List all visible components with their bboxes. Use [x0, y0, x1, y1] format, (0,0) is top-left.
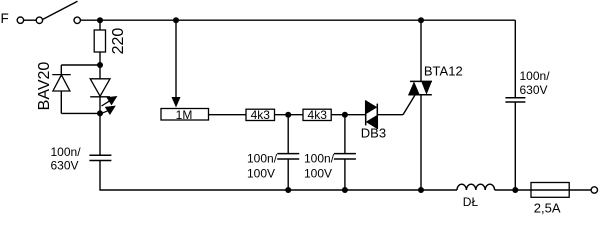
- node junction wiper: [173, 17, 179, 23]
- node junction top-left: [97, 17, 103, 23]
- node junction bottom (C3): [342, 187, 348, 193]
- svg-text:100V: 100V: [304, 167, 332, 181]
- diode BAV20: [36, 62, 71, 111]
- terminal output: [591, 187, 597, 193]
- svg-text:BTA12: BTA12: [424, 63, 463, 78]
- svg-text:BAV20: BAV20: [36, 62, 53, 111]
- node junction triac: [418, 17, 424, 23]
- node junction: [97, 110, 103, 116]
- wire: [60, 91, 62, 113]
- wire: [61, 112, 100, 114]
- svg-text:220: 220: [110, 28, 127, 55]
- node junction bottom (C2): [285, 187, 291, 193]
- svg-text:1M: 1M: [176, 108, 193, 122]
- wire: [495, 189, 531, 191]
- inductor DL: [457, 184, 495, 209]
- wire: [377, 114, 403, 116]
- wire: [61, 64, 100, 66]
- svg-text:100n/: 100n/: [304, 152, 335, 166]
- svg-text:DB3: DB3: [361, 126, 386, 141]
- wire top rail: [81, 19, 516, 21]
- wire: [209, 114, 247, 116]
- svg-text:4k3: 4k3: [251, 108, 271, 122]
- capacitor C1 100n/630V: [51, 145, 112, 173]
- wire: [331, 114, 366, 116]
- resistor 220: [94, 28, 127, 55]
- node junction: [285, 112, 291, 118]
- svg-text:630V: 630V: [520, 83, 548, 97]
- svg-text:100n/: 100n/: [51, 145, 82, 159]
- terminal F: [17, 17, 23, 23]
- capacitor C2 100n/100V: [247, 115, 299, 190]
- triac BTA12: [408, 20, 462, 190]
- LED: [90, 65, 117, 115]
- node junction bottom (triac): [418, 187, 424, 193]
- svg-text:100V: 100V: [247, 167, 275, 181]
- resistor 4k3 (second): [303, 108, 331, 122]
- svg-text:100n/: 100n/: [247, 152, 278, 166]
- capacitor C4 100n/630V: [505, 20, 550, 190]
- wire: [99, 20, 101, 30]
- wire: [100, 161, 457, 191]
- diac DB3: [361, 100, 386, 140]
- wire: [99, 52, 101, 65]
- svg-text:4k3: 4k3: [308, 108, 328, 122]
- svg-text:F: F: [1, 11, 9, 26]
- fuse 2,5A: [531, 183, 591, 216]
- wire: [60, 65, 62, 75]
- wire: [24, 19, 36, 21]
- svg-text:DŁ: DŁ: [463, 195, 479, 209]
- resistor 4k3 (first): [246, 108, 275, 122]
- svg-text:100n/: 100n/: [520, 69, 551, 83]
- wire: [275, 114, 304, 116]
- potentiometer 1M: [161, 20, 209, 122]
- svg-text:2,5A: 2,5A: [534, 201, 561, 216]
- node junction: [342, 112, 348, 118]
- capacitor C3 100n/100V: [304, 115, 356, 190]
- wire: [99, 97, 101, 114]
- wire: [99, 113, 101, 155]
- svg-text:630V: 630V: [51, 159, 79, 173]
- switch: [36, 1, 80, 23]
- node junction: [97, 62, 103, 68]
- node F: [1, 11, 9, 26]
- node junction bottom (C4): [512, 187, 518, 193]
- wire gate diagonal: [403, 95, 415, 115]
